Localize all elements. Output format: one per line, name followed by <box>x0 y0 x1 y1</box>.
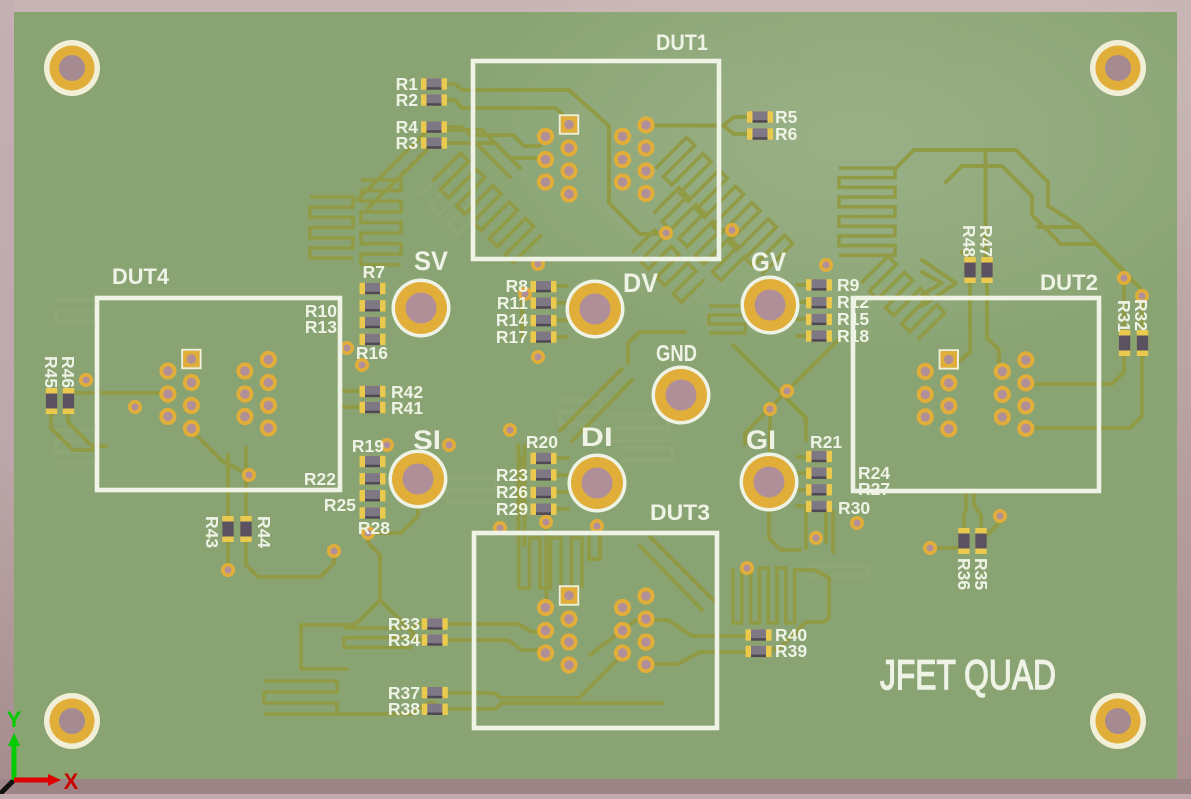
vertical comb inside DUT3 top-left <box>519 538 582 588</box>
via on crossing trace 2 <box>763 402 777 416</box>
resistor R30 <box>806 501 832 512</box>
comb left of GV <box>709 306 745 333</box>
resistor R45 <box>46 388 57 414</box>
via above R31 <box>1117 271 1131 285</box>
stubs R21 col to GI <box>797 457 806 506</box>
resistor R41 <box>360 402 386 413</box>
DUT2 footprint pads <box>917 350 1035 437</box>
resistor R17 <box>531 331 557 342</box>
resistor R10 <box>360 300 386 311</box>
resistor R29 <box>531 504 557 515</box>
svg-text:SI: SI <box>413 425 441 455</box>
wire R48 loop into DUT2 square pad <box>950 283 970 364</box>
wire R43 down to via <box>226 542 230 568</box>
via below R43 <box>221 563 235 577</box>
svg-text:R48: R48 <box>959 225 979 257</box>
label R45 <box>41 356 61 388</box>
wire R31 into DUT2 <box>1098 278 1124 384</box>
via left of DUT3 <box>493 521 507 535</box>
DUT4 footprint pads <box>159 350 277 437</box>
svg-text:R28: R28 <box>358 518 390 538</box>
via inside DUT4 left <box>79 373 93 387</box>
svg-text:R16: R16 <box>356 343 388 363</box>
diagonal serpentine DUT1 bottom-right to GV <box>655 137 792 274</box>
DUT3 footprint pads <box>537 586 655 673</box>
wire R44 down elbow <box>246 542 334 577</box>
comb above R37 <box>344 628 412 647</box>
via right of DUT1 <box>725 223 739 237</box>
wire DUT4 pads diagonal to via <box>193 432 249 475</box>
svg-text:GND: GND <box>656 340 697 366</box>
bus left of R8 column <box>520 286 524 337</box>
wire R4 to DUT1 pads <box>447 127 540 146</box>
resistor R9 <box>806 279 832 290</box>
arrow V trace left of R48 <box>922 260 956 306</box>
resistor R21 <box>806 451 832 462</box>
resistor R13 <box>360 317 386 328</box>
svg-text:DUT2: DUT2 <box>1040 270 1098 295</box>
staircase chain inner parallel <box>946 166 1060 243</box>
svg-text:R36: R36 <box>954 558 974 590</box>
wire comb to R33 R34 <box>412 624 422 640</box>
svg-text:DUT1: DUT1 <box>656 30 708 55</box>
wire diagonal to R32 via <box>1060 244 1141 289</box>
pad GI <box>740 453 799 512</box>
via below R16 <box>355 358 369 372</box>
bus left of R20 column <box>520 458 524 509</box>
stubs R8 col right to DV <box>556 286 567 337</box>
svg-text:DV: DV <box>623 268 658 298</box>
resistor R27 <box>806 484 832 495</box>
wire GV down-left diagonal crossing <box>733 345 806 440</box>
svg-text:R45: R45 <box>41 356 61 388</box>
stubs R20 col to DI <box>556 458 568 509</box>
label R44 <box>254 516 274 548</box>
wire R35 R36 verticals from DUT2 <box>964 495 966 527</box>
resistor R15 <box>806 314 832 325</box>
via inside DUT4 <box>128 400 142 414</box>
wire DUT3 pads up-right <box>590 620 636 655</box>
resistor R40 <box>746 629 772 640</box>
wire via to R36 <box>930 546 958 550</box>
svg-text:R32: R32 <box>1131 299 1151 331</box>
label R48 <box>959 225 979 257</box>
pad GND <box>652 366 711 425</box>
vertical staircase right of X meander <box>839 168 895 255</box>
resistor R38 <box>422 704 448 715</box>
via inside DUT1 <box>659 226 673 240</box>
vertical traces into DUT3 comb <box>517 445 521 540</box>
wire GI pad bottom elbow <box>769 509 800 550</box>
wire DUT2 right pads horizontal <box>1026 382 1100 386</box>
wire comb joins <box>337 703 436 714</box>
svg-text:R43: R43 <box>202 516 222 548</box>
resistor R28 <box>360 507 386 518</box>
mounting hole bottom-left <box>44 693 100 749</box>
svg-text:DI: DI <box>581 422 613 452</box>
svg-text:GI: GI <box>746 425 776 455</box>
svg-text:R31: R31 <box>1114 300 1134 332</box>
resistor R18 <box>806 330 832 341</box>
resistor R20 <box>531 453 557 464</box>
svg-text:R21: R21 <box>810 432 842 452</box>
label R31 <box>1114 300 1134 332</box>
mounting hole top-right <box>1090 40 1146 96</box>
wire R3 to DUT1 pads <box>447 143 536 158</box>
svg-text:R38: R38 <box>388 699 420 719</box>
label R46 <box>58 356 78 388</box>
via left of R8 <box>518 287 532 301</box>
via right of R19 label <box>380 438 394 452</box>
via below R30 <box>809 531 823 545</box>
label R43 <box>202 516 222 548</box>
wire R48 top elbow <box>962 252 970 258</box>
stubs R9 col to GV <box>797 285 806 336</box>
wire R33 to DUT3 pads <box>448 624 542 632</box>
pad DV <box>566 280 625 339</box>
resistor R44 <box>240 516 251 542</box>
faint inner traces <box>56 26 966 576</box>
svg-text:R20: R20 <box>526 432 558 452</box>
wire from SI via down to combs <box>368 533 380 600</box>
wire via to R35 elbow <box>984 516 1000 538</box>
Y axis green arrow <box>12 744 17 780</box>
svg-text:R39: R39 <box>775 641 807 661</box>
resistor R8 <box>531 281 557 292</box>
resistor R24 <box>806 468 832 479</box>
resistor R4 <box>421 121 447 132</box>
comb meander left of DUT1 upper <box>310 197 353 258</box>
svg-text:R30: R30 <box>838 498 870 518</box>
via on crossing trace <box>780 384 794 398</box>
via left of R16 <box>340 341 354 355</box>
resistor R22 <box>360 473 386 484</box>
mounting hole top-left <box>44 40 100 96</box>
resistor R2 <box>421 94 447 105</box>
svg-text:X: X <box>64 769 79 794</box>
svg-text:R41: R41 <box>391 398 423 418</box>
wire near GND via elbow <box>628 332 685 363</box>
svg-text:R44: R44 <box>254 516 274 548</box>
via below DUT1 <box>531 257 545 271</box>
wire R1 into DUT1 long route <box>447 84 661 234</box>
svg-text:DUT4: DUT4 <box>112 264 170 289</box>
resistor R14 <box>531 315 557 326</box>
staircase chain to R31 via <box>986 150 1080 226</box>
resistor R5 <box>747 111 773 122</box>
resistor R47 <box>981 257 992 283</box>
pad SV <box>392 279 451 338</box>
resistor R43 <box>222 516 233 542</box>
resistor R46 <box>63 388 74 414</box>
via below DUT2 <box>850 516 864 530</box>
wire R21 bus vertical below <box>804 507 808 548</box>
resistor R25 <box>360 490 386 501</box>
wire via to DUT3 left pads <box>545 522 549 600</box>
tent diagonal traces above combs <box>357 130 520 200</box>
wire SI pad down to via <box>375 508 418 533</box>
svg-text:R2: R2 <box>396 90 419 110</box>
wires R42 R41 into DUT4 <box>342 391 360 407</box>
label R36 <box>954 558 974 590</box>
resistor R36 <box>958 528 969 554</box>
svg-text:JFET QUAD: JFET QUAD <box>880 651 1056 698</box>
svg-text:Y: Y <box>7 707 22 732</box>
wire R18 down-left diagonal crossing <box>745 338 840 444</box>
via below R28 <box>361 526 375 540</box>
comb right of DUT3 <box>733 568 795 623</box>
X axis red arrow <box>14 778 50 783</box>
squiggle inside DUT3 top <box>589 537 600 559</box>
DUT4 outline <box>97 298 340 490</box>
DUT1 outline <box>473 61 719 259</box>
svg-text:DUT3: DUT3 <box>650 500 710 525</box>
wire R32 into DUT2 <box>1026 296 1142 428</box>
wire R43 R44 up into DUT4 <box>226 455 230 516</box>
svg-text:R7: R7 <box>363 262 385 282</box>
via right of SI <box>442 438 456 452</box>
resistor R33 <box>422 618 448 629</box>
wire R38 to DUT3 <box>448 703 662 709</box>
via above R20 <box>503 423 517 437</box>
wire R45 R46 elbows down-right into DUT4 <box>51 414 93 450</box>
resistor R34 <box>422 634 448 645</box>
wire via into DUT4 pads <box>75 391 168 395</box>
comb meander left of DUT1 lower <box>361 180 401 265</box>
wire R2 to square pad <box>447 100 574 126</box>
label R47 <box>976 225 996 257</box>
via left of R36 <box>923 541 937 555</box>
resistor R7 <box>360 283 386 294</box>
via above R9 <box>819 258 833 272</box>
svg-text:R19: R19 <box>352 436 384 456</box>
svg-text:SV: SV <box>414 246 448 276</box>
svg-text:GV: GV <box>751 247 786 277</box>
resistor R32 <box>1137 330 1148 356</box>
svg-text:R18: R18 <box>837 326 869 346</box>
diagonal pair from via toward DI <box>560 369 622 431</box>
hook loop right of comb <box>772 570 829 650</box>
svg-text:R35: R35 <box>971 558 991 590</box>
svg-text:R25: R25 <box>324 495 356 515</box>
diagonal serpentine inside DUT1 bottom-left <box>432 153 542 263</box>
Z axis black diagonal <box>0 780 14 794</box>
wire vertical above R47 <box>984 150 988 257</box>
pad SI <box>389 450 448 509</box>
wire R34 to DUT3 pads <box>448 640 540 650</box>
resistor R37 <box>422 687 448 698</box>
diagonal meander crossing DUT2 top-left <box>861 256 944 339</box>
svg-text:R22: R22 <box>304 469 336 489</box>
diagonal band inside DUT3 right <box>650 537 714 601</box>
wire R5 R6 merge into DUT1 <box>723 117 747 134</box>
via below R17 <box>531 350 545 364</box>
resistor R3 <box>421 137 447 148</box>
resistor R42 <box>360 386 386 397</box>
svg-text:R46: R46 <box>58 356 78 388</box>
DUT1 footprint pads <box>537 115 655 202</box>
svg-text:R13: R13 <box>305 317 337 337</box>
serpentine below GV label <box>632 230 704 302</box>
resistor R35 <box>975 528 986 554</box>
resistor R16 <box>360 334 386 345</box>
label R35 <box>971 558 991 590</box>
wire R47 into DUT2 <box>987 283 999 368</box>
svg-text:R17: R17 <box>496 327 528 347</box>
resistor R1 <box>421 78 447 89</box>
mounting hole bottom-right <box>1090 693 1146 749</box>
wire R37 to DUT3 <box>448 655 622 698</box>
wire diagonal to R31 via <box>1038 227 1124 271</box>
via right of DUT3 <box>740 561 754 575</box>
resistor R31 <box>1119 330 1130 356</box>
svg-text:R27: R27 <box>858 479 890 499</box>
via above R32 <box>1135 289 1149 303</box>
comb bottom-left spiral <box>264 681 337 714</box>
via above DUT3 <box>539 515 553 529</box>
resistor R48 <box>964 257 975 283</box>
via right of R35 <box>993 509 1007 523</box>
staircase chain comb to R47 top <box>896 150 986 168</box>
pad GV <box>741 276 800 335</box>
resistor R19 <box>360 456 386 467</box>
svg-text:R3: R3 <box>396 133 419 153</box>
stubs below R30 toward DUT3 region <box>826 512 833 552</box>
resistor R23 <box>531 469 557 480</box>
resistor R39 <box>746 646 772 657</box>
pad DI <box>568 454 627 513</box>
DUT2 outline <box>853 298 1099 491</box>
resistor R12 <box>806 297 832 308</box>
wire R40 into DUT3 <box>646 620 748 636</box>
svg-text:R47: R47 <box>976 225 996 257</box>
wire R39 into DUT3 <box>648 652 748 664</box>
wire comb to GV <box>745 313 750 317</box>
label R32 <box>1131 299 1151 331</box>
via inside DUT4 bottom <box>242 468 256 482</box>
resistor R6 <box>747 128 773 139</box>
via below R28 right <box>327 544 341 558</box>
DUT3 outline <box>474 533 717 728</box>
resistor R26 <box>531 487 557 498</box>
svg-text:R34: R34 <box>388 630 420 650</box>
wire via down to GI <box>768 409 772 450</box>
via above DUT3 right <box>590 519 604 533</box>
resistor R11 <box>531 297 557 308</box>
svg-text:R6: R6 <box>775 124 798 144</box>
svg-text:R29: R29 <box>496 499 528 519</box>
